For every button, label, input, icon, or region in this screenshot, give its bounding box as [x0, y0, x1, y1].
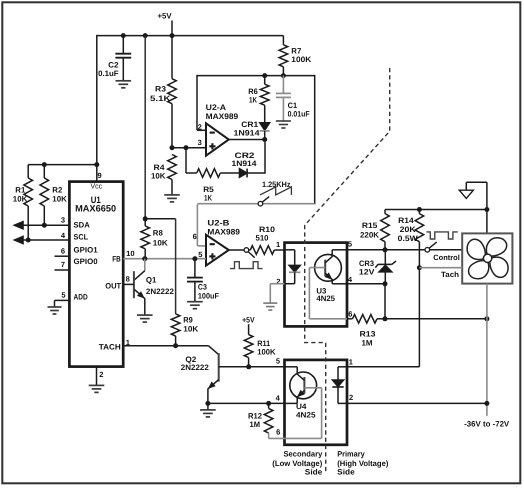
ground (U1 pin 2)	[89, 385, 105, 392]
optocoupler U3 4N25 box	[285, 243, 348, 327]
op-amp U2-B MAX989	[193, 219, 241, 266]
svg-text:Control: Control	[433, 253, 460, 262]
wire U2-B IN- loop	[197, 204, 314, 246]
resistor R2	[40, 165, 67, 226]
svg-text:+5V: +5V	[242, 315, 255, 324]
svg-text:U2-A: U2-A	[206, 103, 227, 112]
svg-text:6: 6	[276, 427, 280, 436]
icon PWM square wave (fan control)	[426, 232, 457, 239]
svg-text:R8: R8	[153, 228, 164, 237]
svg-text:R13: R13	[360, 330, 377, 339]
resistor R14 20K 0.5W	[398, 210, 424, 244]
transistor Q2 2N2222	[181, 346, 285, 410]
U3 pin 1 wire	[276, 240, 295, 265]
svg-text:1M: 1M	[362, 338, 373, 347]
svg-text:2: 2	[198, 122, 202, 131]
diode CR2 1N914	[232, 142, 266, 178]
svg-text:100uF: 100uF	[198, 291, 219, 300]
svg-text:-36V to -72V: -36V to -72V	[464, 420, 510, 429]
wire R1/R2 pullup rail	[28, 162, 97, 167]
svg-text:100K: 100K	[291, 55, 311, 64]
svg-text:Side: Side	[337, 467, 355, 476]
svg-text:SCL: SCL	[74, 232, 89, 241]
svg-text:1: 1	[276, 240, 280, 249]
U4 pin labels right	[349, 358, 353, 403]
svg-text:5: 5	[276, 357, 280, 366]
svg-text:3: 3	[198, 138, 202, 147]
diode CR1 1N914	[234, 105, 270, 139]
wire U2-A IN+ row	[170, 145, 207, 150]
U4 pin 5 wire	[276, 357, 297, 367]
capacitor C2	[98, 36, 131, 81]
ground (Q2)	[200, 410, 216, 417]
svg-text:+5V: +5V	[158, 12, 173, 21]
svg-text:TACH: TACH	[99, 342, 121, 351]
wire U3 pin4 row	[347, 284, 385, 319]
svg-text:Q1: Q1	[146, 276, 157, 285]
svg-text:8: 8	[126, 275, 130, 284]
U3 pin 2 wire	[270, 277, 284, 303]
svg-text:Vcc: Vcc	[91, 181, 103, 190]
svg-text:Tach: Tach	[441, 270, 459, 279]
fan (box and blades)	[462, 233, 512, 283]
svg-text:1: 1	[349, 358, 353, 367]
U3 pin labels right	[348, 240, 353, 319]
ground (R4)	[164, 195, 180, 202]
svg-text:MAX989: MAX989	[206, 112, 239, 121]
svg-text:2N2222: 2N2222	[181, 363, 210, 372]
svg-text:10K: 10K	[52, 195, 67, 204]
svg-text:5: 5	[61, 291, 65, 300]
svg-text:5.1K: 5.1K	[150, 94, 171, 103]
svg-text:6: 6	[61, 247, 65, 256]
svg-text:GPIO0: GPIO0	[74, 257, 99, 266]
svg-text:2: 2	[99, 370, 103, 379]
svg-text:6: 6	[348, 310, 352, 319]
svg-text:20K: 20K	[400, 225, 416, 234]
svg-text:1M: 1M	[250, 420, 261, 429]
U3 base wire	[309, 268, 347, 319]
svg-text:R3: R3	[155, 84, 167, 93]
wire U2-A IN- branch	[197, 75, 206, 130]
resistor R4	[151, 155, 176, 195]
svg-text:ADD: ADD	[74, 293, 88, 302]
ground (ADD)	[48, 307, 62, 314]
U4 internal LED	[332, 367, 347, 404]
U4 base wire	[269, 388, 322, 439]
wire U3 pin5 control row	[347, 247, 462, 252]
svg-text:FB: FB	[112, 254, 121, 263]
svg-text:C3: C3	[198, 283, 208, 292]
wire TACH net	[123, 338, 208, 348]
wire -V rail upper	[385, 207, 489, 212]
svg-text:5: 5	[198, 250, 202, 259]
svg-text:Side: Side	[305, 467, 323, 476]
diode CR3 12V zener	[359, 250, 396, 286]
svg-text:4N25: 4N25	[296, 410, 316, 419]
svg-text:6: 6	[193, 232, 197, 241]
switch on control row	[425, 242, 437, 252]
resistor R12	[248, 403, 273, 438]
pin 5 stub ADD	[55, 291, 70, 308]
wire FB net	[123, 249, 206, 261]
wire U2-B output	[229, 249, 245, 251]
resistor R5	[197, 169, 240, 203]
wire -V bottom row	[347, 402, 487, 404]
op-amp U2-A MAX989	[198, 103, 239, 156]
svg-text:10K: 10K	[151, 171, 166, 180]
capacitor C3	[187, 259, 219, 302]
svg-text:7: 7	[61, 260, 65, 269]
wire ramp feedback right leg	[314, 75, 316, 205]
U3 internal LED	[285, 265, 301, 283]
resistor R9	[171, 314, 198, 346]
wire ramp node rail	[197, 73, 315, 78]
wire U2-A output	[229, 137, 267, 142]
label 1.25KHz sawtooth	[260, 180, 291, 195]
svg-text:220K: 220K	[360, 231, 379, 240]
label Secondary (Low Voltage) Side	[272, 450, 323, 477]
wire +5V to R8/R9 column	[143, 36, 176, 222]
node +5V (R11)	[242, 315, 255, 334]
svg-text:R9: R9	[183, 316, 193, 325]
wire SCL with bus arrow	[14, 236, 69, 243]
chassis ground (fan frame)	[459, 182, 487, 209]
svg-text:10K: 10K	[153, 239, 168, 248]
wire fan supply	[486, 210, 488, 234]
resistor R8	[141, 219, 168, 259]
resistor R11	[244, 335, 276, 367]
pin 2 stub GND	[97, 367, 104, 386]
switch on U2-B IN- loop	[258, 197, 269, 206]
svg-text:4N25: 4N25	[316, 294, 335, 303]
svg-text:R7: R7	[291, 47, 301, 56]
svg-text:GPIO1: GPIO1	[74, 245, 99, 254]
svg-text:5: 5	[348, 240, 352, 249]
svg-text:MAX989: MAX989	[207, 228, 240, 237]
resistor R13 1M	[347, 315, 388, 348]
svg-text:Secondary: Secondary	[284, 450, 323, 459]
resistor R3	[150, 36, 176, 148]
svg-text:U2-B: U2-B	[207, 219, 229, 228]
svg-text:9: 9	[98, 171, 102, 180]
svg-text:SDA: SDA	[74, 220, 91, 229]
wire R9 feed	[175, 219, 177, 314]
wire R14 to U4 pin1 column	[347, 242, 422, 367]
svg-text:Primary: Primary	[337, 450, 365, 459]
svg-text:1N914: 1N914	[232, 159, 258, 168]
wire +5V rail	[97, 33, 284, 38]
optocoupler U4 4N25 box	[285, 360, 348, 445]
resistor R1	[13, 165, 33, 240]
capacitor C1	[276, 76, 310, 121]
svg-text:0.1uF: 0.1uF	[98, 69, 119, 78]
switch on U2-B output	[244, 248, 255, 258]
ground (C3)	[187, 302, 203, 309]
ground (C2)	[116, 81, 132, 88]
svg-text:10: 10	[126, 249, 135, 258]
resistor R6	[248, 76, 269, 106]
wire fan Tach	[419, 268, 462, 280]
ground (C1)	[276, 121, 291, 128]
node +5V supply (top)	[158, 12, 173, 36]
svg-text:2: 2	[349, 393, 353, 402]
label Primary (High Voltage) Side	[337, 450, 389, 477]
wire Q2 emitter row	[208, 401, 285, 406]
svg-text:2N2222: 2N2222	[146, 287, 175, 296]
pin 6 stub GPIO1	[55, 247, 70, 257]
isolation boundary (dashed)	[305, 68, 390, 472]
svg-text:10K: 10K	[183, 325, 198, 334]
svg-text:510: 510	[256, 233, 270, 242]
svg-text:12V: 12V	[359, 268, 375, 277]
wire R13 row to fan return	[385, 316, 489, 321]
svg-text:10K: 10K	[13, 195, 28, 204]
svg-text:CR1: CR1	[241, 120, 259, 129]
wire hysteresis branch	[186, 148, 197, 173]
wire fan return	[484, 284, 489, 416]
svg-text:2: 2	[276, 277, 280, 286]
ground (Q1)	[137, 315, 153, 322]
svg-text:OUT: OUT	[105, 281, 121, 290]
IC U1 MAX6650	[69, 181, 123, 366]
svg-text:R2: R2	[52, 186, 63, 195]
resistor R10 510	[249, 225, 285, 254]
U4 pin labels left	[276, 394, 281, 437]
svg-text:R15: R15	[362, 221, 378, 230]
svg-text:R14: R14	[398, 216, 414, 225]
wire Vcc drop to U1 pin 9	[94, 35, 101, 182]
icon PWM square wave (U2-B out)	[230, 262, 263, 269]
svg-text:100K: 100K	[257, 348, 276, 357]
U4 phototransistor	[285, 367, 317, 420]
svg-text:1N914: 1N914	[234, 129, 261, 138]
ground (U3 pin 2)	[263, 303, 277, 310]
resistor R15 220K	[360, 210, 389, 250]
transistor Q1 2N2222	[123, 259, 174, 315]
U3 phototransistor	[315, 250, 347, 303]
svg-text:1K: 1K	[204, 194, 212, 203]
resistor R7	[279, 36, 312, 76]
svg-text:1K: 1K	[249, 95, 257, 104]
svg-text:3: 3	[61, 215, 65, 224]
svg-text:R1: R1	[15, 186, 26, 195]
svg-text:0.5W: 0.5W	[398, 234, 419, 243]
pin 7 stub GPIO0	[55, 260, 70, 270]
svg-text:0.01uF: 0.01uF	[288, 109, 310, 118]
wire SDA with bus arrow	[14, 222, 69, 229]
svg-text:MAX6650: MAX6650	[75, 204, 116, 214]
